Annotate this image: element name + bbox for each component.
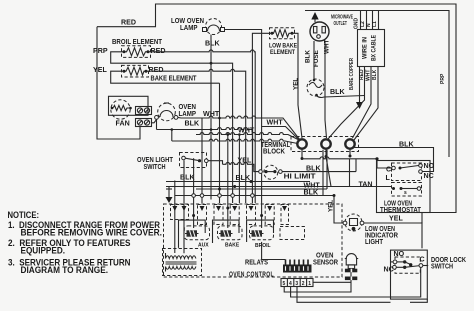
svg-text:4: 4 (289, 281, 292, 287)
svg-text:FAN: FAN (116, 120, 130, 128)
svg-text:WHT: WHT (238, 127, 255, 135)
svg-text:WHT: WHT (267, 119, 284, 127)
svg-text:1: 1 (308, 281, 311, 287)
svg-text:BLK: BLK (305, 50, 312, 63)
svg-text:RED: RED (151, 47, 166, 55)
svg-text:SWITCH: SWITCH (431, 263, 453, 271)
svg-text:NO: NO (424, 162, 435, 170)
svg-text:C: C (420, 256, 425, 264)
svg-text:YEL: YEL (238, 157, 252, 165)
svg-text:LAMP: LAMP (179, 110, 197, 118)
svg-text:FUSE: FUSE (313, 50, 320, 67)
svg-text:EQUIPPED.: EQUIPPED. (21, 246, 66, 256)
svg-text:WHT: WHT (366, 70, 372, 81)
svg-text:BLK: BLK (399, 141, 414, 149)
svg-text:HI LIMIT: HI LIMIT (284, 173, 317, 181)
svg-text:BLK: BLK (330, 88, 345, 96)
svg-text:BX CABLE: BX CABLE (371, 35, 378, 61)
svg-text:BAKE: BAKE (225, 243, 240, 249)
svg-text:BARE COPPER: BARE COPPER (349, 58, 355, 90)
svg-text:SENSOR: SENSOR (313, 259, 338, 267)
svg-text:BLK: BLK (304, 189, 319, 197)
svg-text:WHT: WHT (324, 40, 331, 54)
svg-text:BLK: BLK (372, 69, 378, 80)
svg-text:RED: RED (149, 66, 164, 74)
svg-text:NO: NO (394, 250, 405, 258)
svg-text:LAMP: LAMP (180, 24, 198, 32)
svg-text:NC: NC (424, 172, 434, 180)
svg-text:L1: L1 (372, 21, 378, 27)
svg-text:RED: RED (359, 69, 365, 80)
svg-text:OUTLET: OUTLET (334, 21, 348, 27)
svg-text:ELEMENT: ELEMENT (270, 49, 295, 56)
svg-text:3: 3 (295, 281, 298, 287)
svg-text:MICROWAVE: MICROWAVE (331, 15, 353, 21)
svg-text:LIGHT: LIGHT (365, 238, 384, 246)
svg-text:SWITCH: SWITCH (144, 163, 166, 171)
svg-text:YEL: YEL (328, 200, 335, 212)
svg-text:YEL: YEL (293, 78, 300, 90)
svg-text:PRP: PRP (93, 47, 108, 55)
svg-text:L: L (386, 174, 391, 182)
svg-text:s: s (404, 190, 407, 196)
svg-text:BLK: BLK (306, 165, 321, 173)
svg-text:PRP: PRP (440, 73, 446, 84)
svg-text:RED: RED (121, 19, 136, 27)
svg-text:YEL: YEL (93, 66, 107, 74)
svg-text:WHT: WHT (203, 110, 220, 118)
svg-text:NOTICE:: NOTICE: (8, 210, 40, 220)
svg-text:2: 2 (302, 281, 305, 287)
svg-text:WIRE IN: WIRE IN (362, 37, 369, 59)
svg-text:BLK: BLK (205, 40, 220, 48)
svg-text:YEL: YEL (389, 215, 403, 223)
svg-text:BEFORE REMOVING WIRE COVER.: BEFORE REMOVING WIRE COVER. (21, 228, 163, 238)
svg-text:THERMOSTAT: THERMOSTAT (380, 206, 422, 214)
svg-text:DIAGRAM TO RANGE.: DIAGRAM TO RANGE. (21, 265, 109, 275)
svg-text:GND: GND (354, 18, 360, 30)
svg-text:BLK: BLK (185, 119, 200, 127)
svg-text:TAN: TAN (359, 180, 373, 188)
svg-text:C: C (386, 166, 391, 174)
svg-text:BLK: BLK (236, 174, 251, 182)
svg-text:NC: NC (384, 266, 394, 274)
svg-text:BROIL: BROIL (255, 243, 271, 249)
svg-text:BAKE ELEMENT: BAKE ELEMENT (151, 74, 198, 82)
svg-text:AUX: AUX (198, 243, 209, 249)
svg-text:BLOCK: BLOCK (263, 148, 286, 156)
svg-text:OVEN CONTROL: OVEN CONTROL (229, 271, 274, 279)
svg-text:BROIL ELEMENT: BROIL ELEMENT (112, 38, 163, 46)
svg-text:5: 5 (283, 281, 286, 287)
